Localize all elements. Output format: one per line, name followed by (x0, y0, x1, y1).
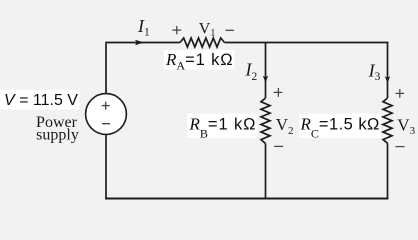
wire: middle branch bottom (R_B bottom lead to bottom wire) (265, 144, 267, 200)
svg-text:I2: I2 (245, 60, 258, 84)
wire: source negative terminal down to bottom-left corner (105, 134, 107, 199)
resistor R_C (zigzag) (383, 98, 392, 143)
current arrow I1 (135, 40, 144, 45)
svg-text:I1: I1 (137, 16, 150, 39)
resistor R_B (zigzag) (261, 98, 270, 144)
value label R_B = 1 kOhm (white patch) (187, 114, 257, 141)
wire: source positive terminal up to top-left corner (105, 44, 107, 94)
wire: middle branch top (junction to R_B top lead) (265, 43, 267, 99)
wire: top horizontal, R_A right lead to top-right corner (225, 42, 389, 44)
polarity mark - for V3 (395, 146, 404, 148)
svg-text:V3: V3 (397, 115, 415, 137)
svg-text:I3: I3 (368, 60, 381, 83)
wire: right branch top (top-right corner to R_C top lead) (387, 42, 389, 98)
value label R_C = 1.5 kOhm (white patch) (299, 114, 381, 141)
label V1 (199, 21, 216, 39)
label I3 (368, 60, 381, 83)
label I2 (245, 60, 258, 84)
value label R_A = 1 kOhm (white patch) (164, 50, 235, 72)
wire: top horizontal, source corner to R_A left lead (105, 42, 180, 44)
wire: bottom horizontal (bottom-left corner to bottom-right corner) (105, 198, 388, 200)
polarity mark + inside source (102, 102, 110, 110)
svg-text:V2: V2 (276, 115, 294, 137)
polarity mark + for V2 (274, 88, 283, 97)
current arrow I2 (263, 76, 268, 83)
label V3 (397, 115, 415, 137)
wire: right branch bottom (R_C bottom lead to bottom-right corner) (387, 143, 389, 199)
polarity mark - for V1 (226, 29, 235, 31)
current arrow I3 (385, 76, 390, 83)
label Power supply (36, 114, 79, 144)
label V2 (276, 115, 294, 137)
polarity mark + for V3 (396, 89, 405, 98)
polarity mark - for V2 (274, 145, 283, 147)
polarity mark - inside source (102, 123, 110, 125)
svg-text:V1: V1 (199, 21, 216, 39)
polarity mark + for V1 (172, 26, 181, 34)
label I1 (137, 16, 150, 39)
svg-text:V = 11.5 V: V = 11.5 V (4, 92, 78, 109)
svg-text:supply: supply (36, 127, 79, 144)
voltage source V (power supply circle) (86, 94, 127, 135)
resistor R_A (zigzag) (180, 38, 225, 47)
value label V = 11.5 V (white patch) (0, 90, 80, 110)
